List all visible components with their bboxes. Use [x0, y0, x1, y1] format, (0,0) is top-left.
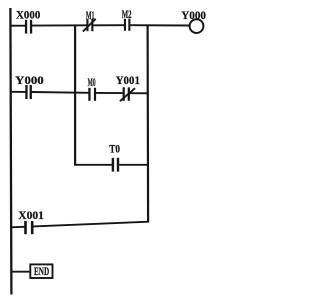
contact M0 — [88, 88, 96, 101]
left power rail — [10, 8, 11, 295]
wire M2 to coil Y000 — [130, 24, 189, 26]
wire rung2 rail to Y000 — [10, 91, 26, 93]
svg-text:Y000: Y000 — [15, 73, 44, 87]
wire rail to END block — [11, 271, 31, 273]
svg-text:T0: T0 — [109, 142, 120, 156]
contact T0 — [112, 158, 120, 172]
contact Y000 — [25, 85, 32, 99]
wire Y001 to branch vertical — [130, 92, 149, 94]
contact X000 — [25, 20, 32, 34]
contact M1 (NC) — [83, 19, 96, 32]
contact Y001 (NC) — [120, 87, 135, 101]
wire X001 to branch vertical — [33, 222, 149, 227]
wire T0 branch left segment — [74, 164, 112, 166]
wire T0 to branch vertical — [119, 164, 149, 166]
svg-text:X000: X000 — [16, 8, 40, 22]
svg-text:Y001: Y001 — [116, 73, 140, 87]
svg-text:X001: X001 — [18, 208, 44, 222]
wire Y000 to M0 — [32, 91, 89, 94]
branch vertical wire from rung1 to X001 rung — [147, 25, 150, 223]
wire M0 to Y001 — [96, 92, 123, 94]
wire rung1 rail to X000 — [10, 25, 25, 27]
coil Y000 — [190, 19, 204, 33]
svg-text:M1: M1 — [86, 8, 95, 22]
svg-text:M2: M2 — [122, 7, 132, 21]
contact X001 — [24, 221, 33, 234]
svg-text:Y000: Y000 — [181, 8, 206, 22]
contact M2 — [124, 19, 131, 31]
svg-text:M0: M0 — [88, 75, 96, 89]
wire X000 to M1 — [32, 24, 87, 26]
wire rung X001 rail to contact — [10, 226, 24, 229]
branch vertical wire from rung1 to T0 rung — [74, 25, 76, 166]
END block — [30, 264, 52, 278]
wire M1 to M2 — [93, 24, 124, 26]
svg-text:END: END — [34, 264, 49, 278]
